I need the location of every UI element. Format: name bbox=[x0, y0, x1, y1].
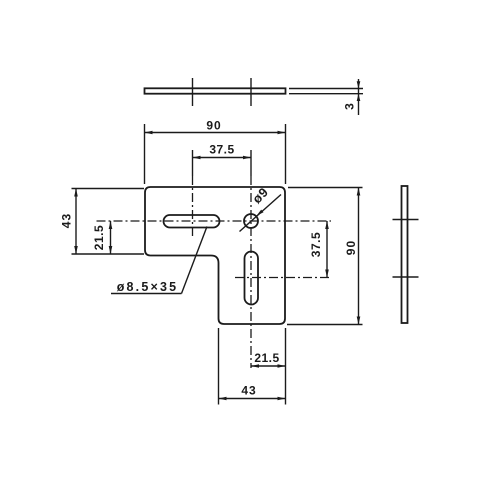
dim 90 top extension left bbox=[144, 124, 146, 184]
dim 37.5 right arrows bbox=[325, 221, 329, 229]
vertical slot 8.5x35 bbox=[245, 252, 259, 305]
side view centerline mark lower bbox=[393, 276, 419, 278]
horizontal slot 8.5x35 bbox=[164, 215, 220, 228]
dim 43 bottom extension left bbox=[218, 328, 220, 405]
vertical centerline through hole and vertical slot bbox=[250, 176, 252, 368]
svg-text:43: 43 bbox=[60, 213, 74, 228]
svg-text:21.5: 21.5 bbox=[254, 351, 279, 365]
dim 21.5 bottom extension right bbox=[285, 328, 287, 405]
dim 90 right line bbox=[358, 188, 360, 325]
dim 21.5 bottom line bbox=[251, 365, 286, 367]
dim 37.5 top extension left bbox=[192, 150, 194, 176]
svg-text:3: 3 bbox=[343, 103, 357, 110]
svg-text:37.5: 37.5 bbox=[309, 232, 323, 257]
svg-text:ø8.5×35: ø8.5×35 bbox=[117, 280, 179, 294]
dimension 3 line bbox=[358, 79, 360, 115]
leader line phi8.5x35 bbox=[182, 227, 208, 294]
leader underline phi8.5x35 bbox=[111, 293, 182, 295]
svg-text:37.5: 37.5 bbox=[209, 143, 234, 157]
dim 37.5 right line bbox=[326, 221, 328, 278]
dim 43 left extension bottom bbox=[72, 253, 145, 255]
thickness extension line lower bbox=[289, 93, 363, 95]
dim 43 left extension top bbox=[72, 188, 145, 190]
dim 43 bottom line bbox=[219, 398, 286, 400]
svg-text:43: 43 bbox=[241, 384, 256, 398]
top view centerline mark left bbox=[192, 78, 194, 106]
dim 90 right extension bottom bbox=[287, 324, 363, 326]
vertical centerline through horizontal slot bbox=[192, 176, 194, 236]
svg-text:21.5: 21.5 bbox=[92, 225, 106, 250]
dim 43 left arrows bbox=[74, 189, 78, 197]
dim 43 bottom arrows bbox=[219, 397, 227, 401]
horizontal centerline through slot and hole bbox=[97, 220, 332, 222]
dim 90 top line bbox=[145, 132, 286, 134]
dim 37.5 top line bbox=[193, 157, 252, 159]
hole phi9 bbox=[244, 214, 258, 228]
dimension 3 arrow upper bbox=[357, 81, 361, 88]
leader line phi9 bbox=[240, 195, 282, 232]
top view centerline mark right bbox=[250, 78, 252, 106]
dimension 3 arrow lower bbox=[357, 94, 361, 101]
dim 90 right extension top bbox=[288, 187, 363, 189]
horizontal centerline through vertical slot bbox=[235, 277, 331, 279]
dim 43 left line bbox=[75, 189, 77, 255]
leader arrowhead phi9 bbox=[257, 210, 264, 216]
dim 90 right arrows bbox=[357, 188, 361, 196]
thickness extension line upper bbox=[289, 88, 363, 90]
side view strip (right) bbox=[402, 186, 408, 323]
dim 37.5 top extension right bbox=[250, 150, 252, 176]
dim 21.5 left line bbox=[110, 221, 112, 254]
plate outline L-shape bbox=[145, 187, 285, 324]
svg-text:90: 90 bbox=[344, 240, 358, 255]
dim 21.5 left arrows bbox=[109, 221, 113, 229]
top view strip (plate edge view) bbox=[145, 88, 286, 93]
side view centerline mark upper bbox=[393, 219, 419, 221]
dim 21.5 bottom arrows bbox=[251, 364, 259, 368]
dim 90 top arrows bbox=[145, 131, 153, 135]
svg-text:90: 90 bbox=[206, 119, 221, 133]
dim 37.5 top arrows bbox=[193, 156, 201, 160]
dim 90 top extension right bbox=[285, 124, 287, 184]
